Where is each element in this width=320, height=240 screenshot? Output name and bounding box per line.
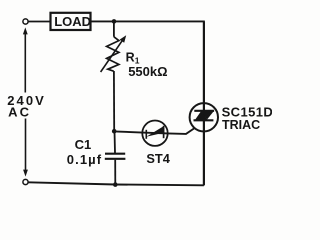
node junction bottom [113, 182, 118, 187]
svg-text:R: R [126, 51, 135, 65]
AC source line lower segment [25, 119, 27, 171]
triac up triangle [195, 111, 207, 119]
wire bottom [28, 182, 204, 185]
wire LOAD to right rail [91, 20, 205, 22]
wire C1 bottom lead [114, 160, 116, 185]
svg-text:LOAD: LOAD [54, 14, 91, 29]
svg-text:AC: AC [8, 104, 31, 119]
svg-text:ST4: ST4 [146, 151, 170, 166]
svg-text:0.1µf: 0.1µf [67, 152, 102, 167]
triac bottom bar [194, 119, 214, 121]
capacitor C1 top plate [105, 153, 125, 155]
svg-text:C1: C1 [75, 137, 92, 152]
node junction middle (gate net) [112, 129, 117, 134]
wire gate net: junction to diac to triac gate [114, 128, 195, 134]
triac top bar [194, 110, 214, 112]
wire right rail [203, 21, 205, 185]
resistor R1 zigzag [107, 37, 119, 71]
terminal bottom-left [23, 179, 28, 184]
capacitor C1 bottom plate [105, 158, 126, 160]
R1 variable arrowhead [120, 35, 127, 43]
wire R1 top lead [113, 21, 115, 36]
triac down triangle [200, 111, 214, 119]
terminal top-left [23, 19, 28, 24]
load box [51, 13, 91, 30]
diac triangle [146, 126, 163, 137]
svg-text:550kΩ: 550kΩ [128, 64, 167, 79]
AC source down arrowhead [23, 170, 28, 177]
svg-text:TRIAC: TRIAC [222, 118, 260, 132]
wire terminal to LOAD [28, 21, 50, 23]
wire C1 top lead [114, 131, 117, 153]
diac left bar [145, 130, 147, 139]
diac right bar [163, 126, 165, 138]
diac ST4 circle [142, 121, 167, 146]
triac U1 circle [190, 103, 218, 131]
R1 variable arrow shaft [101, 40, 123, 72]
AC source up arrowhead [23, 27, 28, 34]
AC source line upper segment [24, 33, 26, 93]
node junction top (R1 tap) [112, 19, 117, 24]
wire R1 bottom lead [113, 71, 115, 131]
